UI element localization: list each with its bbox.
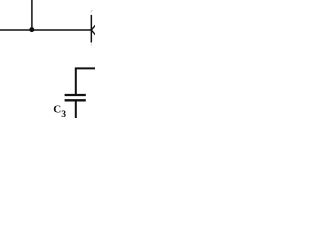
svg-text:3: 3 xyxy=(61,109,66,118)
svg-text:C: C xyxy=(53,104,61,116)
